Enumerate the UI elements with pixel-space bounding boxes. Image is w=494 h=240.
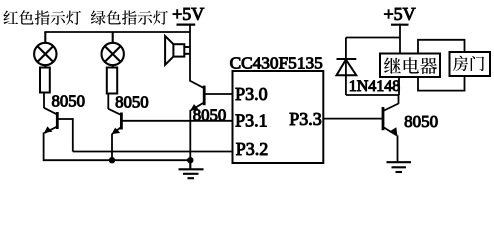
svg-text:8050: 8050: [115, 92, 149, 111]
power +5V bar (left): [177, 24, 196, 26]
door box 房门: [450, 52, 491, 76]
wire: P3.3 to Q4 base: [323, 118, 383, 120]
wire: Q4 emitter to ground: [397, 135, 399, 162]
wire: Q1 base lead: [57, 118, 73, 120]
lamp LP2 (green indicator): [102, 32, 124, 68]
wire: Q1 emitter to ground rail: [43, 132, 45, 161]
wire: R2 to Q2 collector: [107, 94, 109, 110]
wire: +5V rail to diode cathode: [346, 37, 400, 39]
svg-text:P3.2: P3.2: [236, 139, 269, 159]
wire: Q1 base down to P3.2 rail: [72, 118, 74, 151]
speaker LS1: [165, 36, 190, 65]
wire: relay to door (bottom loop): [418, 76, 465, 91]
svg-text:P3.0: P3.0: [235, 84, 268, 104]
svg-text:8050: 8050: [404, 112, 438, 131]
svg-text:+5V: +5V: [172, 4, 204, 24]
wire: Q2 emitter to ground rail: [111, 134, 113, 161]
wire: P3.2 rail to MCU: [73, 151, 233, 153]
wire: relay to door (top loop): [418, 40, 465, 54]
svg-text:P3.3: P3.3: [289, 109, 322, 129]
label: green indicator lamp 绿色指示灯: [91, 10, 168, 25]
svg-text:8050: 8050: [52, 91, 86, 110]
wire: +5V down to speaker and Q3 collector: [189, 24, 191, 81]
label 继电器 (relay): [384, 57, 437, 74]
lamp LP1 (red indicator): [34, 32, 56, 68]
wire: +5V down to relay coil: [399, 24, 401, 54]
wire: relay coil bottom pin: [398, 77, 400, 95]
diode D1 1N4148: [337, 38, 357, 96]
svg-text:P3.1: P3.1: [235, 111, 268, 131]
junction dot: Q3 emitter / ground tap: [188, 158, 193, 163]
wire: R1 to Q1 collector: [43, 93, 45, 109]
ground (middle): [179, 160, 204, 178]
svg-text:CC430F5135: CC430F5135: [230, 54, 323, 73]
wire: top +5V rail to lamps: [44, 31, 190, 33]
transistor Q1 8050: [44, 108, 57, 133]
wire: Q3 emitter down to ground rail: [189, 110, 191, 160]
MCU U1 CC430F5135 box: [233, 71, 324, 163]
svg-text:+5V: +5V: [384, 4, 416, 24]
svg-text:1N4148: 1N4148: [349, 78, 401, 95]
relay box 继电器: [380, 54, 440, 78]
power +5V bar (right): [391, 24, 409, 26]
wire: P3.1 rail from Q2 base to MCU: [121, 120, 232, 122]
label: red indicator lamp 红色指示灯: [3, 10, 81, 25]
wire: emitter ground rail: [44, 159, 193, 161]
transistor Q2 8050: [108, 109, 121, 134]
ground (right): [387, 162, 412, 172]
junction dot: Q2 emitter on ground rail: [109, 158, 114, 163]
wire: diode anode to relay/collector node: [346, 94, 399, 96]
wire: Q3 base to MCU P3.0: [204, 93, 232, 95]
resistor R2: [107, 68, 117, 94]
svg-text:8050: 8050: [193, 105, 227, 124]
label 房门 (door): [453, 56, 484, 71]
transistor Q3 8050 (speaker driver): [190, 81, 205, 111]
transistor Q4 8050 (relay driver): [383, 95, 399, 136]
resistor R1: [40, 68, 50, 93]
